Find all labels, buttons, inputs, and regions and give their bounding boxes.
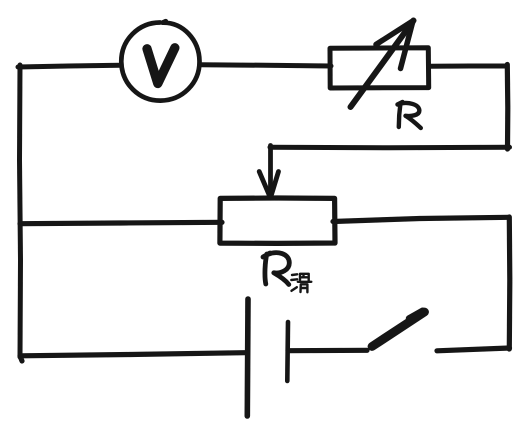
resistor R arrowhead barb right [401,21,414,69]
wire switch to battery [288,348,367,354]
slider arrowhead [259,172,278,200]
rheostat R_hua body [220,198,335,243]
resistor R arrow shaft [351,21,414,108]
wire left vertical [20,65,21,357]
label R (variable resistor) [398,102,421,128]
wire top-left (left corner to voltmeter) [18,65,120,67]
voltmeter letter V [147,48,175,84]
battery negative plate (long) [245,299,251,416]
label R_hua letter R [263,253,289,285]
resistor R body (variable resistor rectangle) [330,48,429,88]
wire voltmeter to resistor R [201,65,331,66]
wire bottom (battery to left corner) [20,353,245,361]
wire left to rheostat [20,222,222,223]
wire rheostat to right vertical [333,217,509,221]
slider arrow shaft [268,146,273,194]
battery positive plate (short) [285,322,290,381]
wire right vertical lower loop [507,217,513,349]
wire resistor R to right corner [430,64,506,69]
wire middle horizontal (to slider arrow) [270,145,510,151]
label R_hua subscript hua (CJK) [291,274,311,293]
wire right vertical upper loop [505,65,511,150]
voltmeter U1 circle [121,21,199,100]
switch S blade [372,311,425,347]
resistor R arrowhead barb left [376,21,413,45]
wire bottom right (right corner to switch) [437,348,510,351]
